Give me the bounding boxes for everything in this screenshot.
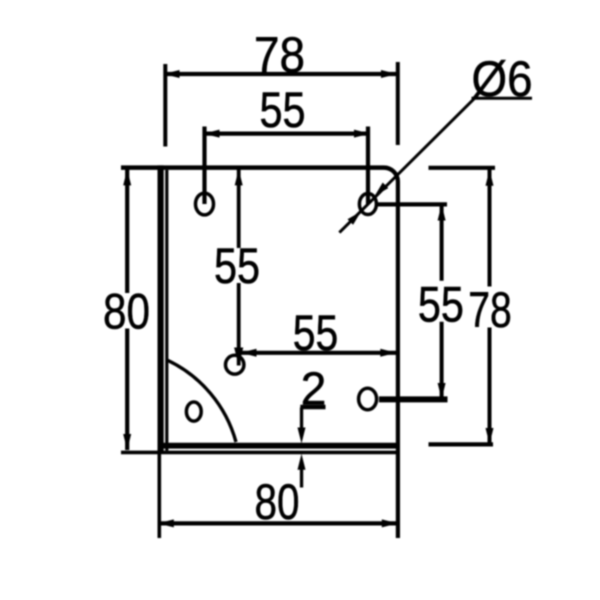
hole H5 bottom-right: [359, 388, 377, 409]
dim 78 right: dimension line lower segment: [488, 328, 492, 445]
plate top-right corner fillet: [384, 165, 400, 181]
dim 55 middle horizontal: left arrowhead: [241, 349, 257, 357]
dim 78 top: left arrowhead: [164, 70, 180, 78]
dim 55 right: bottom extension line from hole H5: [379, 396, 448, 402]
dim 78 right: top extension line: [429, 166, 496, 170]
svg-text:80: 80: [103, 284, 150, 340]
dim 2 thickness: lower arrowhead pointing up: [298, 454, 306, 470]
hole H1 top-left: [196, 193, 214, 215]
label diameter 6: leader line to hole H2: [338, 97, 475, 233]
label diameter 6: upper arrowhead at hole edge: [375, 183, 389, 196]
dim 55 vertical center: dimension line lower segment: [237, 283, 241, 366]
dim 55 right: bottom arrowhead: [438, 383, 446, 399]
dim 80 left: dimension line upper segment: [125, 169, 129, 293]
svg-text:55: 55: [260, 82, 306, 138]
dim 78 top: right extension line: [396, 62, 400, 145]
dim 80 left: dimension line lower segment: [125, 329, 129, 451]
hole H2 top-right: [359, 193, 376, 214]
dim 55 right: dimension line upper segment: [440, 205, 444, 281]
dim 80 left: bottom arrowhead: [123, 434, 131, 450]
svg-text:55: 55: [418, 277, 464, 333]
dim 2 thickness: leader upper segment: [300, 408, 303, 430]
dim 80 bottom: left extension line: [158, 454, 162, 538]
dim 55 vertical center: top arrowhead: [235, 169, 243, 185]
plate right edge / bottom-right extension line: [396, 181, 400, 538]
dim 55 middle horizontal: right arrowhead: [380, 349, 396, 357]
plate left edge outer band: [158, 165, 164, 454]
dim 2 thickness: shelf line: [300, 405, 325, 410]
dim 2 thickness: upper arrowhead pointing down: [298, 428, 306, 444]
svg-text:78: 78: [468, 282, 512, 338]
dim 78 top: left extension line: [163, 64, 167, 147]
svg-text:55: 55: [293, 305, 339, 361]
plate bottom edge outer band: [158, 443, 399, 449]
dim 80 left: top arrowhead: [123, 169, 131, 185]
dim 78 right: bottom extension line: [429, 442, 494, 446]
dim 2 thickness: leader lower tail: [300, 467, 303, 488]
plate left edge inner band: [165, 170, 168, 451]
dim 78 right: top arrowhead: [486, 170, 494, 186]
svg-text:80: 80: [255, 474, 300, 530]
dim 78 top: right arrowhead: [381, 70, 397, 78]
dim 78 top: dimension line: [164, 72, 398, 76]
hole H4 bottom-left: [186, 402, 201, 421]
dim 55 vertical center: dimension line upper segment: [237, 169, 241, 248]
label diameter 6: underline: [472, 97, 533, 100]
dim 80 bottom: right arrowhead: [382, 519, 398, 527]
dim 80 bottom: left arrowhead: [158, 519, 174, 527]
dim 78 right: bottom arrowhead: [486, 428, 494, 444]
dim 55 top: right arrowhead: [354, 130, 370, 138]
dim 55 top: left extension line into hole H1: [202, 127, 206, 205]
dim 55 right: top extension line from hole H2: [378, 202, 447, 206]
hole H3 center: [226, 355, 244, 374]
label diameter 6: lower arrowhead at hole edge: [348, 212, 362, 225]
dim 55 vertical center: bottom arrowhead: [234, 348, 243, 366]
plate top edge: [121, 165, 384, 170]
dim 78 right: dimension line upper segment: [488, 170, 492, 287]
dim 55 right: top arrowhead: [438, 205, 446, 221]
dim 55 middle horizontal: dimension line: [241, 351, 397, 355]
plate bottom edge inner band / left extension line: [121, 451, 398, 455]
bend arc bottom-left: [167, 360, 236, 442]
dim 55 top: right extension line into hole H2: [366, 127, 370, 205]
svg-text:55: 55: [214, 238, 260, 294]
dim 55 top: left arrowhead: [204, 130, 220, 138]
dim 55 top: dimension line: [204, 132, 371, 136]
dim 55 right: dimension line lower segment: [440, 322, 444, 399]
dim 80 bottom: dimension line: [158, 521, 398, 525]
svg-text:78: 78: [254, 27, 305, 83]
